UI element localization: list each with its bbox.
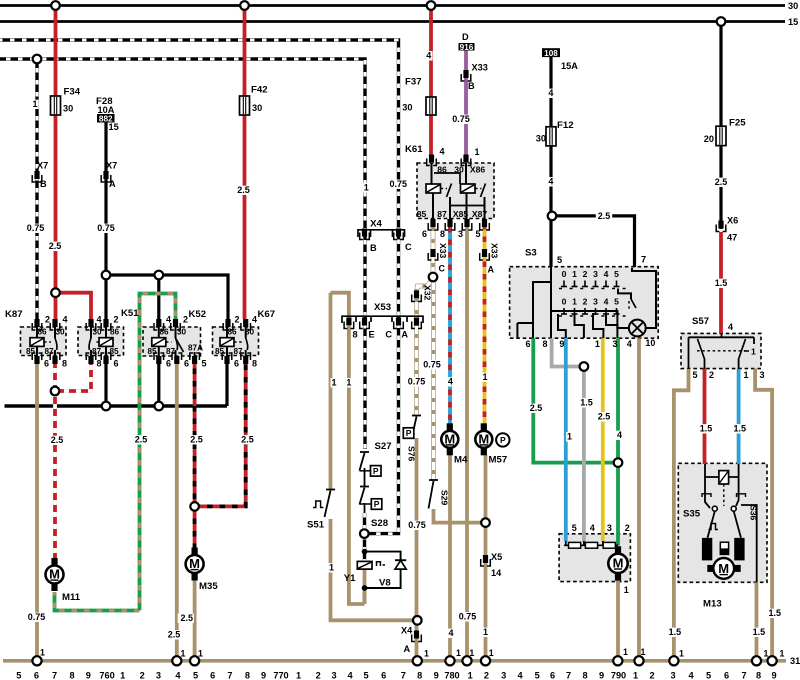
svg-text:9: 9 [434, 671, 439, 680]
svg-text:8: 8 [543, 339, 548, 349]
svg-text:1: 1 [181, 649, 186, 659]
svg-text:6: 6 [422, 229, 427, 239]
svg-text:4: 4 [426, 51, 431, 61]
svg-text:M: M [718, 561, 729, 576]
svg-text:85: 85 [215, 347, 225, 356]
svg-text:9: 9 [86, 671, 91, 680]
svg-text:2: 2 [140, 671, 145, 680]
svg-text:1: 1 [331, 378, 336, 388]
svg-text:2: 2 [709, 370, 714, 380]
svg-text:1: 1 [456, 648, 461, 658]
svg-text:2.5: 2.5 [598, 211, 611, 221]
svg-text:0.75: 0.75 [423, 360, 441, 370]
svg-text:X33: X33 [472, 63, 488, 73]
svg-text:5: 5 [16, 671, 21, 680]
svg-text:1.5: 1.5 [580, 398, 593, 408]
svg-text:S3: S3 [525, 248, 537, 259]
svg-text:1: 1 [364, 183, 369, 193]
svg-text:1: 1 [624, 585, 629, 595]
svg-text:4: 4 [617, 430, 622, 440]
svg-text:30: 30 [454, 165, 464, 175]
svg-text:M35: M35 [199, 581, 218, 592]
svg-text:87: 87 [92, 347, 102, 356]
svg-text:E: E [369, 330, 375, 340]
svg-text:87A: 87A [188, 344, 203, 353]
svg-text:6: 6 [184, 359, 189, 369]
svg-text:8: 8 [97, 359, 102, 369]
svg-text:X4: X4 [401, 626, 413, 636]
svg-text:2: 2 [583, 297, 588, 307]
svg-text:8: 8 [62, 359, 67, 369]
svg-text:30: 30 [402, 103, 412, 113]
svg-text:14: 14 [491, 568, 502, 578]
svg-text:S57: S57 [692, 316, 709, 327]
svg-text:20: 20 [704, 134, 714, 144]
svg-text:8: 8 [252, 359, 257, 369]
svg-text:30: 30 [177, 328, 187, 337]
svg-text:5: 5 [614, 269, 619, 279]
svg-text:0.75: 0.75 [408, 377, 426, 387]
svg-text:1: 1 [40, 648, 45, 658]
svg-text:1: 1 [633, 671, 638, 680]
svg-text:0: 0 [562, 269, 567, 279]
svg-text:5: 5 [706, 671, 711, 680]
svg-text:4: 4 [604, 297, 609, 307]
svg-text:3: 3 [670, 671, 675, 680]
svg-text:770: 770 [273, 671, 288, 680]
svg-text:P: P [373, 466, 379, 476]
svg-text:1: 1 [623, 647, 628, 657]
svg-text:M57: M57 [489, 455, 508, 466]
svg-text:1: 1 [468, 671, 473, 680]
svg-text:1: 1 [744, 370, 749, 380]
svg-text:F42: F42 [251, 85, 268, 96]
svg-text:790: 790 [611, 671, 626, 680]
svg-text:4: 4 [63, 315, 68, 325]
svg-text:9: 9 [599, 671, 604, 680]
svg-text:1: 1 [595, 339, 600, 349]
svg-text:15: 15 [788, 17, 798, 27]
svg-text:30: 30 [252, 103, 262, 113]
svg-text:2: 2 [649, 671, 654, 680]
svg-text:1: 1 [296, 671, 301, 680]
svg-text:9: 9 [261, 671, 266, 680]
svg-text:86: 86 [159, 328, 169, 337]
svg-text:1: 1 [489, 648, 494, 658]
svg-text:2.5: 2.5 [237, 185, 250, 195]
svg-text:8: 8 [440, 229, 445, 239]
svg-text:31: 31 [790, 656, 800, 666]
svg-text:1: 1 [469, 648, 474, 658]
svg-text:2: 2 [583, 269, 588, 279]
svg-text:1: 1 [572, 297, 577, 307]
svg-text:2: 2 [114, 315, 119, 325]
svg-text:5: 5 [693, 370, 698, 380]
svg-text:6: 6 [724, 671, 729, 680]
svg-text:2.5: 2.5 [180, 613, 193, 623]
svg-text:D: D [462, 32, 469, 42]
svg-text:B: B [40, 179, 47, 189]
svg-text:4: 4 [175, 671, 181, 680]
svg-text:4: 4 [517, 671, 523, 680]
svg-text:X4: X4 [370, 219, 382, 230]
svg-text:0.75: 0.75 [28, 612, 46, 622]
svg-text:7: 7 [641, 255, 646, 265]
svg-text:7: 7 [52, 671, 57, 680]
svg-text:X7: X7 [37, 161, 48, 171]
svg-text:2: 2 [625, 523, 630, 533]
svg-text:2.5: 2.5 [598, 412, 611, 422]
svg-text:M4: M4 [454, 455, 468, 466]
svg-text:1: 1 [780, 649, 785, 659]
svg-text:6: 6 [381, 671, 386, 680]
svg-text:6: 6 [234, 359, 239, 369]
svg-text:P: P [406, 428, 412, 438]
svg-text:1: 1 [482, 372, 487, 382]
svg-text:1: 1 [424, 649, 429, 659]
svg-text:10A: 10A [98, 105, 115, 115]
svg-text:85: 85 [26, 347, 36, 356]
svg-text:1: 1 [641, 647, 646, 657]
svg-text:5: 5 [475, 229, 480, 239]
svg-text:0.75: 0.75 [459, 612, 477, 622]
svg-text:K51: K51 [121, 308, 139, 319]
svg-text:F37: F37 [405, 77, 422, 88]
svg-text:1: 1 [120, 671, 125, 680]
svg-text:1: 1 [751, 347, 756, 357]
svg-text:X32: X32 [423, 285, 433, 301]
svg-text:V8: V8 [379, 578, 391, 589]
svg-text:760: 760 [99, 671, 114, 680]
svg-text:2: 2 [45, 315, 50, 325]
svg-text:2.5: 2.5 [51, 435, 64, 445]
svg-text:4: 4 [448, 628, 453, 638]
svg-text:1.5: 1.5 [669, 627, 682, 637]
svg-text:6: 6 [166, 359, 171, 369]
svg-text:K87: K87 [5, 309, 23, 320]
svg-text:A: A [401, 330, 408, 340]
svg-text:5: 5 [202, 359, 207, 369]
svg-text:1.5: 1.5 [734, 424, 747, 434]
svg-text:86: 86 [437, 165, 447, 175]
svg-text:9: 9 [771, 671, 776, 680]
svg-text:7: 7 [227, 671, 232, 680]
svg-text:X85: X85 [453, 209, 469, 219]
svg-text:B: B [468, 81, 475, 91]
svg-text:5: 5 [193, 671, 198, 680]
svg-text:30: 30 [245, 328, 255, 337]
svg-text:Y1: Y1 [344, 573, 356, 584]
svg-text:S35: S35 [683, 509, 701, 520]
svg-text:8: 8 [417, 671, 422, 680]
svg-text:85: 85 [147, 347, 157, 356]
svg-text:0.75: 0.75 [27, 223, 45, 233]
svg-text:3: 3 [593, 297, 598, 307]
svg-text:7: 7 [566, 671, 571, 680]
svg-text:S29: S29 [440, 490, 450, 506]
svg-text:X86: X86 [470, 165, 486, 175]
svg-text:30: 30 [536, 134, 546, 144]
svg-text:1.5: 1.5 [753, 627, 766, 637]
svg-text:86: 86 [110, 328, 120, 337]
svg-text:5: 5 [572, 523, 577, 533]
svg-text:30: 30 [788, 1, 798, 11]
svg-text:4: 4 [548, 88, 553, 98]
svg-text:6: 6 [210, 671, 215, 680]
svg-text:30: 30 [92, 328, 102, 337]
svg-text:4: 4 [548, 177, 553, 187]
svg-text:87: 87 [166, 347, 176, 356]
svg-text:X6: X6 [727, 216, 738, 226]
svg-text:916: 916 [460, 43, 474, 52]
svg-text:X53: X53 [374, 302, 391, 313]
svg-text:4: 4 [347, 671, 353, 680]
svg-text:S27: S27 [375, 441, 392, 452]
svg-text:8: 8 [245, 671, 250, 680]
svg-text:X33: X33 [438, 243, 448, 259]
svg-text:8: 8 [756, 671, 761, 680]
svg-text:C: C [385, 330, 392, 340]
svg-text:3: 3 [156, 671, 161, 680]
svg-text:85: 85 [109, 347, 119, 356]
svg-text:P: P [500, 435, 506, 445]
svg-text:4: 4 [166, 315, 171, 325]
svg-text:85: 85 [417, 209, 427, 219]
svg-text:K52: K52 [189, 309, 207, 320]
svg-text:5: 5 [363, 671, 368, 680]
svg-text:C: C [439, 264, 446, 274]
svg-text:2.5: 2.5 [49, 241, 62, 251]
svg-text:5: 5 [535, 671, 540, 680]
svg-text:1: 1 [32, 99, 37, 109]
svg-text:6: 6 [34, 671, 39, 680]
svg-text:5: 5 [557, 255, 562, 265]
svg-text:3: 3 [593, 269, 598, 279]
svg-text:30: 30 [63, 104, 73, 114]
svg-text:2.5: 2.5 [530, 403, 543, 413]
svg-text:2: 2 [235, 315, 240, 325]
svg-text:4: 4 [97, 315, 102, 325]
svg-text:0.75: 0.75 [408, 520, 426, 530]
svg-text:S28: S28 [371, 518, 389, 529]
svg-text:1.5: 1.5 [715, 278, 728, 288]
svg-text:A: A [488, 265, 495, 275]
svg-text:S76: S76 [407, 446, 417, 462]
svg-text:S36: S36 [749, 505, 759, 521]
svg-text:A: A [404, 644, 411, 654]
svg-text:8: 8 [70, 671, 75, 680]
svg-text:1: 1 [567, 432, 572, 442]
svg-text:3: 3 [501, 671, 506, 680]
svg-text:87: 87 [233, 347, 243, 356]
svg-text:15: 15 [109, 122, 119, 132]
svg-text:7: 7 [741, 671, 746, 680]
svg-text:10: 10 [645, 338, 655, 348]
svg-text:6: 6 [114, 359, 119, 369]
svg-text:C: C [405, 242, 412, 252]
svg-text:2.5: 2.5 [715, 177, 728, 187]
svg-text:47: 47 [727, 233, 737, 243]
svg-text:2: 2 [183, 315, 188, 325]
svg-text:6: 6 [44, 359, 49, 369]
svg-text:4: 4 [604, 269, 609, 279]
svg-text:5: 5 [614, 297, 619, 307]
svg-text:30: 30 [55, 328, 65, 337]
svg-text:86: 86 [37, 328, 47, 337]
svg-text:1: 1 [198, 649, 203, 659]
svg-text:4: 4 [440, 147, 445, 157]
svg-text:15A: 15A [561, 61, 578, 71]
svg-text:B: B [370, 243, 377, 253]
svg-text:2.5: 2.5 [241, 435, 254, 445]
svg-text:1: 1 [329, 563, 334, 573]
svg-text:87: 87 [44, 347, 54, 356]
svg-text:4: 4 [627, 339, 632, 349]
svg-text:K61: K61 [405, 144, 423, 155]
svg-text:1: 1 [764, 649, 769, 659]
svg-text:2.5: 2.5 [135, 435, 148, 445]
svg-text:0.75: 0.75 [97, 223, 115, 233]
svg-text:M11: M11 [62, 592, 81, 603]
svg-text:1: 1 [475, 147, 480, 157]
svg-text:S51: S51 [307, 520, 325, 531]
svg-text:86: 86 [227, 328, 237, 337]
svg-text:F12: F12 [557, 120, 574, 131]
svg-text:A: A [109, 179, 116, 189]
svg-text:3: 3 [760, 370, 765, 380]
svg-text:6: 6 [550, 671, 555, 680]
svg-text:1: 1 [483, 627, 488, 637]
svg-text:87: 87 [437, 209, 447, 219]
svg-text:P: P [374, 499, 380, 509]
svg-text:4: 4 [448, 377, 453, 387]
svg-text:9: 9 [559, 339, 564, 349]
svg-text:X33: X33 [490, 243, 500, 259]
svg-text:K67: K67 [258, 309, 276, 320]
svg-text:1.5: 1.5 [700, 424, 713, 434]
svg-text:4: 4 [252, 315, 257, 325]
svg-text:6: 6 [526, 339, 531, 349]
svg-text:7: 7 [401, 671, 406, 680]
svg-text:X87: X87 [472, 209, 488, 219]
svg-text:F25: F25 [729, 118, 746, 129]
svg-text:4: 4 [688, 671, 694, 680]
svg-text:M13: M13 [703, 599, 722, 610]
svg-text:2: 2 [484, 671, 489, 680]
svg-text:0.75: 0.75 [452, 114, 470, 124]
svg-text:2.5: 2.5 [168, 630, 181, 640]
svg-text:2.5: 2.5 [190, 435, 203, 445]
svg-text:3: 3 [607, 523, 612, 533]
svg-text:1.5: 1.5 [768, 608, 781, 618]
svg-text:4: 4 [590, 523, 595, 533]
svg-text:X7: X7 [106, 161, 117, 171]
svg-text:108: 108 [544, 49, 558, 58]
svg-text:3: 3 [332, 671, 337, 680]
svg-text:0: 0 [562, 297, 567, 307]
svg-text:3: 3 [458, 229, 463, 239]
svg-text:2: 2 [316, 671, 321, 680]
svg-text:780: 780 [444, 671, 459, 680]
svg-text:1: 1 [346, 378, 351, 388]
svg-text:X5: X5 [491, 552, 502, 562]
svg-text:1: 1 [679, 649, 684, 659]
svg-text:8: 8 [353, 330, 358, 340]
svg-text:4: 4 [728, 322, 733, 332]
svg-text:3: 3 [613, 339, 618, 349]
svg-text:1: 1 [572, 269, 577, 279]
svg-text:8: 8 [582, 671, 587, 680]
svg-text:0.75: 0.75 [390, 179, 408, 189]
svg-text:F34: F34 [64, 87, 81, 98]
